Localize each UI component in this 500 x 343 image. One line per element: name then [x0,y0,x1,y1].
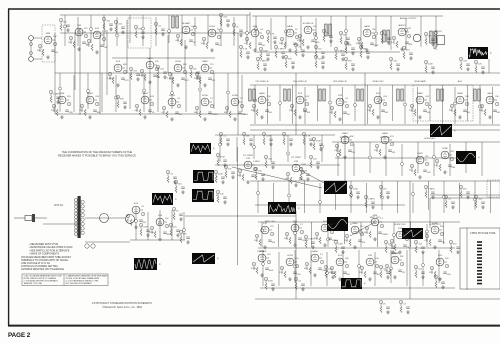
wire [116,17,118,46]
wire [344,135,346,181]
svg-text:RECEIVER MAKES IT POSSIBLE TO: RECEIVER MAKES IT POSSIBLE TO BRING YOU … [58,154,136,158]
junction ring [443,196,446,199]
svg-text:▪ MAKE OF COMPONENTS: ▪ MAKE OF COMPONENTS [29,253,59,256]
component group [156,65,167,79]
wire [310,250,312,286]
svg-text:68K: 68K [246,136,250,138]
svg-text:6W6: 6W6 [253,26,258,28]
svg-text:10K: 10K [53,36,57,38]
wire [377,224,379,247]
wire [171,73,173,109]
svg-text:AUDIO OUTPUT: AUDIO OUTPUT [400,17,417,20]
svg-text:1 MEG: 1 MEG [260,61,267,63]
power transformer T1 [74,196,84,238]
wire [112,57,215,59]
junction ring [294,265,297,268]
wire [74,33,76,90]
wire [79,28,81,115]
wire [490,181,492,213]
wire [143,73,145,112]
svg-text:39K: 39K [359,272,363,274]
svg-text:100K: 100K [139,75,144,77]
tube stage cluster [384,252,406,279]
wire [430,197,500,199]
svg-text:68K: 68K [409,44,413,46]
component group [259,47,270,61]
wire [215,164,340,166]
svg-text:10K: 10K [427,112,431,114]
waveform photo inset [268,202,300,214]
wire [87,73,89,109]
tube stage cluster [254,223,276,249]
waveform photo inset [468,47,492,59]
IF transformer [357,89,364,101]
component group [309,155,320,169]
svg-text:4.7K: 4.7K [243,49,248,51]
svg-text:39K: 39K [440,226,444,228]
junction ring [379,100,382,103]
wire [126,20,128,73]
picture tube outer box [460,228,500,289]
junction ring [227,91,230,94]
tube stage cluster [359,255,381,281]
dashed box top right [487,180,500,197]
wire [354,85,356,121]
component group [216,153,227,167]
svg-text:10K: 10K [267,96,271,98]
wire [327,224,329,247]
wire [278,252,280,286]
component group [139,223,150,237]
wire [130,239,185,241]
tube stage cluster [86,28,108,54]
junction ring [326,272,329,275]
wire [430,194,500,196]
component group [459,185,470,199]
IF transformer [249,89,256,101]
tube stage cluster [79,92,101,119]
tube stage cluster [149,215,172,241]
svg-text:12K: 12K [155,61,159,63]
svg-text:6AU6: 6AU6 [259,92,265,95]
wire [342,87,344,124]
wire [255,204,405,206]
wire [443,222,445,244]
wire [85,241,130,243]
svg-text:3RD VIDEO IF: 3RD VIDEO IF [333,81,347,83]
wire [379,87,381,124]
component group [266,30,277,44]
waveform photo inset [152,193,177,205]
svg-text:1 MEG: 1 MEG [107,78,114,80]
tube stage cluster [479,92,500,119]
wire [103,15,105,46]
wire [285,16,287,47]
svg-text:10K: 10K [385,112,389,114]
svg-text:12AU7: 12AU7 [417,92,424,95]
junction ring [350,194,353,197]
svg-text:100K: 100K [191,26,196,28]
svg-text:12K: 12K [438,279,442,281]
component group [474,195,485,209]
svg-text:39K: 39K [449,110,453,112]
junction ring [479,105,482,108]
svg-text:12K: 12K [318,59,322,61]
wire [249,12,251,33]
svg-text:1 MEG: 1 MEG [253,161,260,163]
component group [334,240,345,254]
wire [236,137,238,162]
svg-text:39K: 39K [400,256,404,258]
wire [438,250,440,283]
tube stage cluster [391,24,413,51]
junction ring [329,101,332,104]
svg-text:12K: 12K [212,80,216,82]
wire [417,87,419,124]
svg-text:10K: 10K [307,112,311,114]
tube stage cluster [251,92,273,119]
svg-text:1 MEG: 1 MEG [338,51,345,53]
svg-text:10K: 10K [388,244,392,246]
IF transformer [437,89,444,101]
tube stage cluster [449,92,471,119]
junction ring [199,88,202,91]
wire [135,210,137,240]
wire [183,212,185,240]
svg-text:6CB6: 6CB6 [432,223,438,225]
wire [465,142,467,173]
junction ring [321,145,324,148]
wire [227,73,229,112]
component group [459,57,470,71]
wire [85,217,126,219]
junction ring [183,229,186,232]
wire [159,210,161,237]
junction ring [401,163,404,166]
svg-text:470K: 470K [316,141,321,143]
component group [434,275,445,289]
svg-text:39K: 39K [251,110,255,112]
svg-text:4.7K: 4.7K [102,31,107,33]
svg-text:6CD6: 6CD6 [209,26,215,28]
wire [335,157,470,159]
component group [264,277,275,291]
component group [254,167,264,181]
component group [219,13,230,27]
svg-text:12AU7: 12AU7 [87,92,94,95]
wire [99,35,101,114]
svg-text:12K: 12K [409,110,413,112]
wire [392,85,394,121]
wire [344,222,346,244]
wire [43,223,77,225]
wire [350,222,375,236]
svg-text:ASTERISK DENOTES 10% TOLERANCE: ASTERISK DENOTES 10% TOLERANCE [21,268,64,271]
svg-text:AGC: AGC [458,80,463,83]
component group [169,223,180,237]
component group [302,132,313,146]
border frame bottom [8,325,500,327]
component group [364,195,375,209]
svg-text:VIDEO DET: VIDEO DET [372,81,384,83]
wire [412,183,414,213]
wire [253,135,255,159]
junction ring [433,156,436,159]
component group [116,95,127,109]
svg-text:470K: 470K [268,281,273,283]
svg-text:12AU7: 12AU7 [352,222,359,225]
tube stage cluster [356,25,379,52]
wire [184,40,186,73]
wire [260,287,455,289]
svg-text:NOT SHOWN ON SCHEMATIC: NOT SHOWN ON SCHEMATIC [66,282,93,285]
wire [267,87,269,124]
wire [479,85,481,124]
wire [404,85,406,124]
tube stage cluster [237,158,260,184]
tube stage cluster [68,25,90,51]
wire [374,252,376,286]
svg-text:100K: 100K [428,64,433,66]
wire [181,15,183,46]
wire [250,129,500,131]
component group [424,185,435,199]
component group [256,57,267,71]
junction ring [219,143,222,146]
component group [339,31,350,45]
tube stage cluster [367,93,389,119]
component group [389,57,400,71]
tube stage cluster [194,60,216,87]
tube stage cluster [314,221,338,247]
svg-text:12K: 12K [79,110,83,112]
wire [90,15,92,43]
component group [214,170,225,184]
IF transformer [319,89,326,101]
wire [420,16,422,47]
wire [232,167,322,188]
svg-text:10K: 10K [313,159,317,161]
component group [129,67,140,81]
svg-text:1/2 12SN7: 1/2 12SN7 [291,157,302,159]
svg-text:6AU6: 6AU6 [312,250,318,253]
junction ring [90,28,93,31]
svg-text:4.7K: 4.7K [270,34,275,36]
wire [106,30,108,95]
svg-text:39K: 39K [183,234,187,236]
svg-text:12K: 12K [348,45,352,47]
tube stage cluster [409,153,431,179]
junction ring [288,194,291,197]
svg-text:1 MEG: 1 MEG [368,199,375,201]
junction ring [171,92,174,95]
component group [154,22,165,36]
wire [185,73,187,112]
component group [380,31,391,45]
junction ring [87,90,90,93]
component group [359,45,370,59]
audio output tube V9 [413,34,421,42]
component group [474,60,485,74]
component group [314,55,325,69]
junction ring [115,96,118,99]
svg-text:100K: 100K [266,136,271,138]
tube stage cluster [244,26,266,52]
junction ring [294,232,297,235]
junction ring [285,30,288,33]
wire [435,16,437,50]
component group [299,167,310,181]
svg-text:1 MEG: 1 MEG [382,234,389,236]
component group [334,47,345,61]
wire [254,85,256,124]
wire [287,137,289,162]
wire [342,250,344,283]
wire [304,181,306,213]
tube stage cluster [364,215,388,241]
svg-text:39K: 39K [479,110,483,112]
wire [311,222,313,247]
wire [220,15,222,46]
wire [270,18,272,50]
svg-text:39K: 39K [288,59,292,61]
svg-text:10K: 10K [495,96,499,98]
wire [319,183,321,213]
svg-text:39K: 39K [350,136,354,138]
svg-text:4.7K: 4.7K [303,171,308,173]
wire [288,181,290,210]
junction ring [246,32,249,35]
border frame top [8,8,500,10]
svg-text:560: 560 [497,112,500,114]
component group [379,300,390,314]
wire [390,16,392,50]
svg-text:AUDIO: AUDIO [399,24,406,27]
wire [294,250,296,283]
component group [172,207,183,221]
svg-text:2ND VIDEO IF: 2ND VIDEO IF [293,81,307,83]
waveform photo inset [456,151,480,164]
IF transformer [397,89,404,101]
wire [433,142,435,176]
coordination note [58,150,136,158]
tube stage cluster [285,161,306,187]
wire [337,142,339,176]
tube stage cluster [201,26,222,52]
tube stage cluster [304,250,328,277]
wire [294,222,296,244]
tube stage cluster [167,61,189,87]
wire [185,215,296,217]
svg-text:39K: 39K [348,61,352,63]
waveform photo inset [192,189,218,202]
junction ring [422,264,425,267]
svg-text:1 MEG: 1 MEG [212,114,219,116]
svg-text:39K: 39K [37,50,41,52]
wire [215,134,335,136]
wire [255,51,400,53]
wire [385,142,387,176]
junction ring [375,32,378,35]
wire [295,211,297,299]
wire [77,17,79,46]
wire [237,33,239,135]
component group [379,185,390,199]
wire [459,183,461,213]
IF transformer [325,24,332,36]
sync section dashed box [413,85,473,121]
wire [129,73,131,109]
waveform photo inset [430,124,456,137]
wire [261,222,263,247]
wire [406,250,408,286]
wire [59,73,61,112]
pilot lamp [85,244,89,248]
svg-text:6AL5: 6AL5 [147,57,153,60]
junction ring [64,25,67,28]
svg-text:6AU6: 6AU6 [364,25,370,28]
svg-text:6CB6: 6CB6 [232,95,238,97]
wire [207,15,209,43]
component group [384,240,395,254]
wire [375,16,377,47]
junction ring [474,198,477,201]
component group [166,170,177,184]
component group [379,265,390,279]
wire [167,35,169,73]
wire [428,181,430,210]
wire [233,17,235,46]
svg-text:12K: 12K [272,242,276,244]
wire [360,18,362,50]
tube stage cluster [139,57,161,84]
svg-text:LINE VOLTAGE AT 117V AC: LINE VOLTAGE AT 117V AC [21,262,50,265]
tube stage cluster [175,22,196,49]
tube stage cluster [161,95,183,121]
wire [492,87,494,124]
component group [114,20,125,34]
junction ring [159,222,162,225]
IF transformer [284,89,291,101]
wire [335,181,337,210]
junction ring [261,229,264,232]
svg-text:1 MEG: 1 MEG [167,78,174,80]
wire [55,113,245,115]
AC plug [14,214,47,222]
component group [344,57,355,71]
wire [326,252,328,286]
svg-text:RF AMP: RF AMP [182,22,191,25]
svg-text:6W6: 6W6 [60,93,65,95]
component group [219,132,230,146]
svg-text:10K: 10K [97,112,101,114]
svg-text:6CD6: 6CD6 [169,95,175,97]
svg-text:VIDEO AMP: VIDEO AMP [414,80,426,83]
svg-text:12AU7: 12AU7 [202,60,209,63]
junction ring [168,30,171,33]
wire [353,144,355,176]
svg-text:©Howard W. Sams & Co., Inc. 19: ©Howard W. Sams & Co., Inc. 1953 [102,306,142,309]
tube stage cluster [284,221,308,247]
notes box [22,274,108,286]
wire [171,210,173,240]
component group [294,277,305,291]
svg-text:6AL5: 6AL5 [487,92,493,95]
tube stage cluster [279,255,301,281]
wire [101,73,103,112]
wire [115,75,117,112]
svg-text:6SN7: 6SN7 [417,153,423,155]
